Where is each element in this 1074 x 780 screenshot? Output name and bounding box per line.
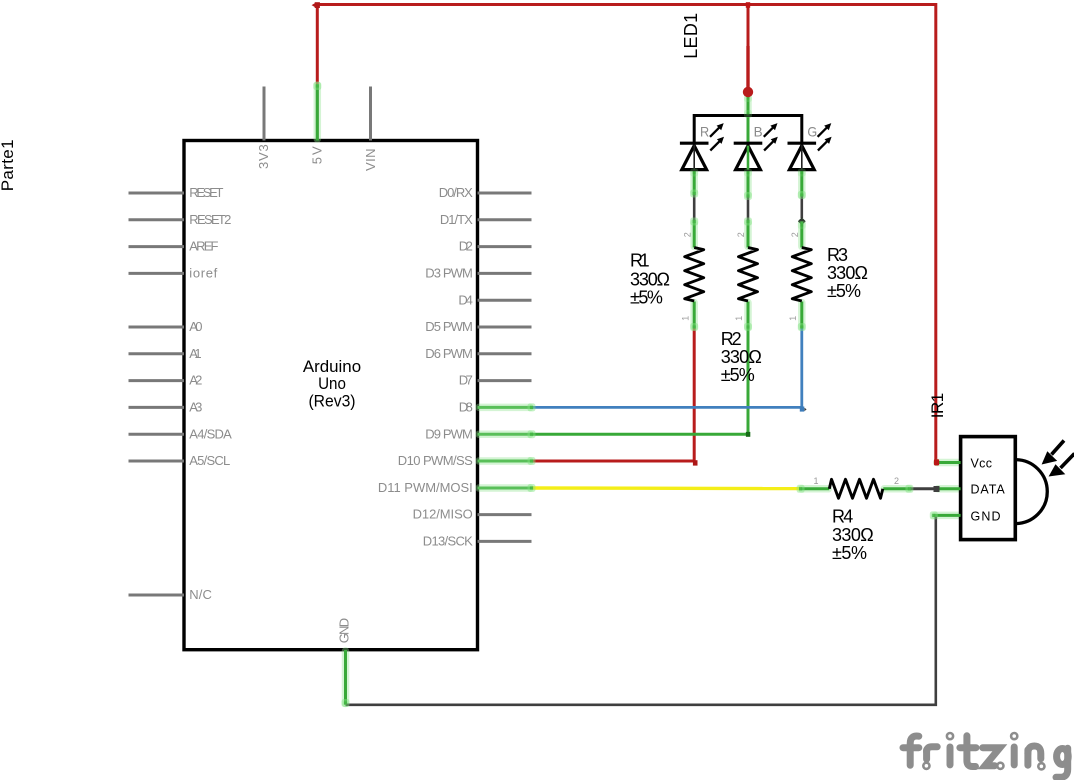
svg-text:G: G: [807, 124, 817, 140]
svg-text:R4: R4: [832, 507, 853, 527]
svg-text:LED1: LED1: [681, 13, 701, 59]
svg-text:2: 2: [682, 232, 692, 237]
svg-text:D13/SCK: D13/SCK: [423, 534, 473, 549]
svg-text:1: 1: [680, 316, 690, 321]
svg-text:A3: A3: [189, 400, 202, 415]
svg-text:2: 2: [736, 232, 746, 237]
svg-text:A4/SDA: A4/SDA: [189, 426, 232, 441]
svg-text:Uno: Uno: [318, 374, 346, 393]
svg-text:2: 2: [790, 232, 800, 237]
svg-text:D3 PWM: D3 PWM: [425, 266, 473, 281]
svg-text:±5%: ±5%: [827, 281, 861, 301]
svg-text:A5/SCL: A5/SCL: [189, 453, 230, 468]
svg-text:A2: A2: [189, 373, 202, 388]
svg-text:Parte1: Parte1: [0, 139, 17, 191]
svg-text:330Ω: 330Ω: [630, 269, 670, 289]
svg-text:D12/MISO: D12/MISO: [413, 507, 473, 522]
svg-text:D4: D4: [458, 292, 472, 307]
svg-text:D5 PWM: D5 PWM: [425, 319, 473, 334]
svg-text:330Ω: 330Ω: [832, 525, 874, 545]
svg-text:±5%: ±5%: [832, 543, 867, 563]
svg-text:ioref: ioref: [189, 266, 217, 281]
svg-text:A0: A0: [189, 319, 202, 334]
svg-text:IR1: IR1: [928, 393, 947, 418]
svg-text:A1: A1: [189, 346, 201, 361]
svg-text:1: 1: [814, 476, 819, 486]
svg-text:D6 PWM: D6 PWM: [425, 346, 473, 361]
svg-text:3V3: 3V3: [256, 144, 271, 169]
svg-text:D11 PWM/MOSI: D11 PWM/MOSI: [378, 480, 473, 495]
svg-text:5V: 5V: [310, 146, 325, 164]
svg-text:D0/RX: D0/RX: [439, 185, 473, 200]
svg-text:Vcc: Vcc: [971, 456, 993, 470]
svg-text:VIN: VIN: [363, 149, 378, 172]
svg-text:D10 PWM/SS: D10 PWM/SS: [398, 453, 473, 468]
svg-text:1: 1: [788, 316, 798, 321]
svg-text:GND: GND: [337, 618, 352, 643]
svg-text:±5%: ±5%: [721, 365, 755, 385]
svg-text:D8: D8: [459, 400, 473, 415]
svg-text:B: B: [754, 124, 763, 140]
svg-text:(Rev3): (Rev3): [308, 391, 355, 410]
svg-text:D1/TX: D1/TX: [440, 212, 473, 227]
svg-text:R1: R1: [630, 251, 650, 271]
svg-text:R2: R2: [721, 329, 742, 349]
svg-text:D9 PWM: D9 PWM: [425, 426, 473, 441]
svg-text:330Ω: 330Ω: [827, 263, 868, 283]
svg-text:±5%: ±5%: [630, 288, 663, 308]
svg-text:N/C: N/C: [189, 587, 212, 602]
svg-text:R: R: [700, 124, 709, 140]
svg-text:R3: R3: [827, 245, 848, 265]
svg-text:D7: D7: [459, 373, 473, 388]
svg-text:330Ω: 330Ω: [721, 347, 762, 367]
svg-text:D2: D2: [459, 239, 473, 254]
svg-text:2: 2: [894, 476, 899, 486]
svg-text:RESET2: RESET2: [189, 212, 231, 227]
svg-text:RESET: RESET: [189, 185, 223, 200]
svg-text:GND: GND: [971, 510, 1001, 524]
svg-text:1: 1: [734, 316, 744, 321]
svg-text:AREF: AREF: [189, 239, 218, 254]
svg-text:DATA: DATA: [971, 483, 1006, 497]
